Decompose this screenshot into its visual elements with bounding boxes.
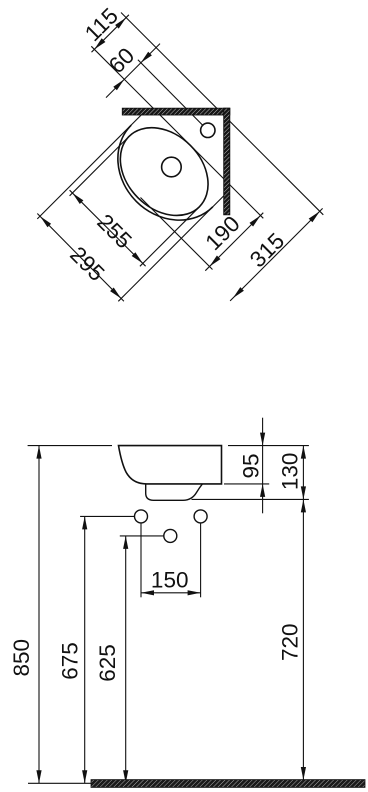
dimension line 625 xyxy=(125,536,127,783)
extension line: body width left (295) xyxy=(37,115,141,219)
svg-text:130: 130 xyxy=(278,453,303,491)
extension line: body width right (295) xyxy=(118,196,223,301)
extension line: basin top level (right) xyxy=(228,445,309,447)
dimension line 150 xyxy=(141,592,201,594)
drain hole xyxy=(162,157,182,177)
floor (hatched bar) xyxy=(91,780,365,788)
lower hole xyxy=(164,529,177,542)
dimension line 255 xyxy=(70,190,146,266)
drain trap stub xyxy=(146,484,203,500)
extension line below left hole xyxy=(140,523,142,597)
wall section: right bar (hatched) xyxy=(224,108,230,215)
dimension line 95 (outside arrows) xyxy=(262,418,264,514)
dimension line 675 xyxy=(84,516,86,783)
extension line: bowl width left (255) xyxy=(70,136,129,195)
extension line: bowl width right (255) xyxy=(140,207,200,266)
dimension line 60 xyxy=(106,44,160,98)
faucet hole xyxy=(201,123,215,137)
svg-text:95: 95 xyxy=(239,453,264,478)
mount hole right xyxy=(194,510,207,523)
washbasin side profile xyxy=(119,446,222,484)
dimension line 850 xyxy=(38,446,40,784)
washbasin body outline (front arc) xyxy=(96,125,213,242)
floor line xyxy=(28,782,91,784)
extension line: drain bottom level xyxy=(192,498,309,500)
mount hole left xyxy=(135,510,148,523)
extension line: lower hole level xyxy=(120,535,164,537)
extension line: mount holes level xyxy=(80,515,134,517)
svg-text:625: 625 xyxy=(95,644,120,682)
dimension line 115 xyxy=(92,15,129,52)
extension line: basin top level (left) xyxy=(28,445,112,447)
svg-text:850: 850 xyxy=(9,639,34,677)
extension line: corner reference (x-y=108.5) xyxy=(121,13,323,215)
dimension line 315 xyxy=(230,208,323,301)
extension line below right hole xyxy=(200,523,202,597)
svg-text:150: 150 xyxy=(151,568,189,593)
dimension line 190 xyxy=(205,213,263,271)
dimension line 130 xyxy=(302,446,304,500)
dimension line 295 xyxy=(37,214,124,302)
washbasin bowl (oval) xyxy=(103,110,226,233)
dimension line 720 xyxy=(302,499,304,780)
extension line: bowl front (190) xyxy=(141,198,213,270)
wall section: top bar (hatched) xyxy=(122,108,230,115)
extension line: bowl rim reference (x-y=45) xyxy=(91,46,263,218)
extension line: faucet reference xyxy=(138,60,203,126)
svg-text:720: 720 xyxy=(278,623,303,661)
svg-text:675: 675 xyxy=(58,642,83,680)
extension line: rim bottom level xyxy=(224,483,269,485)
